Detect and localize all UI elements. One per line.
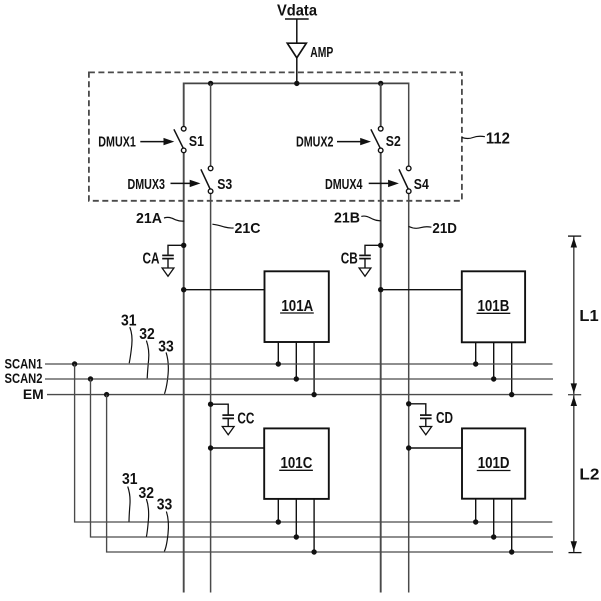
wire Vdata to AMP — [296, 19, 298, 43]
pin 101C leg3 — [313, 499, 315, 552]
node junction 101A leg3 — [311, 392, 316, 397]
svg-text:DMUX3: DMUX3 — [128, 176, 166, 193]
label 33 top with leader — [158, 339, 174, 394]
svg-text:32: 32 — [139, 326, 155, 343]
pin 101C leg2 — [295, 499, 297, 537]
pin 101A leg3 — [313, 342, 315, 395]
capacitor CB — [341, 243, 384, 277]
pixel block 101B — [462, 271, 525, 342]
node junction 21C feed — [208, 445, 213, 450]
svg-text:L2: L2 — [579, 467, 599, 484]
svg-text:CC: CC — [237, 410, 254, 427]
label DMUX3 with arrow — [128, 176, 201, 193]
dimension line L1/L2 — [568, 236, 582, 552]
node junction AMP-bus — [294, 81, 299, 86]
wire feed to 101B — [381, 289, 462, 291]
svg-text:CA: CA — [143, 251, 160, 268]
pin 101A leg1 — [277, 342, 279, 364]
node junction 21B feed — [378, 287, 383, 292]
wire AMP to bus — [296, 58, 298, 84]
wire hook SCAN1 down — [75, 364, 553, 522]
label DMUX1 with arrow — [98, 133, 174, 150]
svg-text:CD: CD — [436, 410, 453, 427]
svg-text:S4: S4 — [414, 176, 430, 193]
svg-text:101D: 101D — [478, 455, 510, 472]
wire SCAN2 — [45, 378, 553, 380]
wire 21B lower (data line 21B) — [380, 153, 382, 593]
wire feed to 101D — [409, 447, 462, 449]
svg-text:33: 33 — [157, 497, 173, 514]
label 21D with leader — [409, 220, 457, 237]
node junction 101A leg1 — [276, 361, 281, 366]
pixel block 101D — [462, 428, 525, 498]
demux block 112 dashed box — [89, 72, 462, 200]
wire 21A upper — [183, 83, 185, 127]
svg-text:101B: 101B — [478, 298, 510, 315]
pixel block 101C — [264, 428, 329, 499]
node junction 21B-bus — [378, 81, 383, 86]
label 31 top with leader — [121, 312, 137, 363]
wire 21A lower (data line 21A) — [183, 153, 185, 593]
svg-text:S3: S3 — [217, 176, 232, 193]
pixel block 101A — [265, 271, 329, 342]
node junction 101A leg2 — [294, 376, 299, 381]
wire hook SCAN2 down — [91, 379, 553, 537]
pin 101B leg2 — [493, 342, 495, 379]
svg-text:SCAN2: SCAN2 — [5, 370, 43, 386]
svg-text:DMUX1: DMUX1 — [98, 133, 136, 150]
node junction 101D leg1 — [473, 519, 478, 524]
pin 101C leg1 — [277, 499, 279, 522]
label DMUX2 with arrow — [296, 133, 371, 150]
svg-text:S1: S1 — [189, 133, 204, 150]
pin 101D leg1 — [475, 499, 477, 522]
node junction 101B leg2 — [491, 376, 496, 381]
node junction 101C leg3 — [311, 549, 316, 554]
wire 21C upper — [210, 83, 212, 166]
svg-text:S2: S2 — [386, 133, 401, 150]
node junction 101D leg2 — [491, 534, 496, 539]
switch S2 — [371, 126, 401, 152]
node junction SCAN2 hook — [88, 376, 93, 381]
node junction 21A feed — [181, 287, 186, 292]
op-amp AMP — [287, 43, 333, 61]
wire hook EM down — [107, 395, 553, 552]
label 31 bottom with leader — [122, 471, 138, 522]
node junction 101C leg2 — [294, 534, 299, 539]
node junction EM hook — [104, 392, 109, 397]
svg-text:DMUX4: DMUX4 — [325, 176, 363, 193]
svg-text:EM: EM — [23, 386, 44, 402]
node junction 101D leg3 — [509, 549, 514, 554]
wire bus — [184, 82, 409, 84]
label 21B with leader — [334, 210, 381, 227]
node Vdata — [277, 3, 317, 20]
label 33 bottom with leader — [157, 497, 173, 552]
pin 101D leg2 — [493, 499, 495, 537]
wire 21C lower (data line 21C) — [210, 194, 212, 593]
svg-text:21D: 21D — [432, 220, 457, 237]
svg-text:CB: CB — [341, 251, 358, 268]
label 32 top with leader — [139, 326, 155, 379]
node junction 21C-bus — [208, 81, 213, 86]
label DMUX4 with arrow — [325, 176, 399, 193]
capacitor CC — [208, 402, 255, 435]
svg-text:31: 31 — [121, 312, 137, 329]
wire EM — [47, 394, 553, 396]
node junction 101B leg1 — [473, 361, 478, 366]
node junction 21D feed — [406, 445, 411, 450]
svg-text:SCAN1: SCAN1 — [5, 355, 43, 371]
svg-text:Vdata: Vdata — [277, 3, 317, 20]
label 21C with leader — [212, 220, 260, 237]
capacitor CD — [406, 401, 453, 435]
label 32 bottom with leader — [139, 485, 155, 537]
wire feed to 101A — [184, 289, 265, 291]
pin 101B leg1 — [475, 342, 477, 364]
label 112 leader — [462, 136, 485, 138]
wire 21D lower (data line 21D) — [408, 194, 410, 593]
svg-text:AMP: AMP — [310, 44, 333, 61]
wire 21D upper — [408, 83, 410, 167]
svg-text:21C: 21C — [235, 220, 261, 237]
svg-text:DMUX2: DMUX2 — [296, 133, 334, 150]
pin 101A leg2 — [295, 342, 297, 379]
svg-text:21A: 21A — [136, 210, 162, 227]
svg-text:21B: 21B — [334, 210, 360, 227]
pin 101D leg3 — [511, 499, 513, 552]
svg-text:L1: L1 — [579, 308, 598, 325]
node junction 101C leg1 — [276, 519, 281, 524]
svg-text:112: 112 — [486, 131, 510, 148]
capacitor CA — [143, 243, 187, 277]
switch S3 — [201, 166, 232, 193]
label 21A with leader — [136, 210, 184, 227]
wire 21B upper — [380, 83, 382, 126]
wire feed to 101C — [211, 447, 265, 449]
switch S1 — [174, 126, 204, 152]
svg-text:31: 31 — [122, 471, 138, 488]
switch S4 — [399, 166, 429, 193]
wire SCAN1 — [45, 363, 553, 365]
pin 101B leg3 — [511, 342, 513, 395]
node junction 101B leg3 — [509, 392, 514, 397]
node junction SCAN1 hook — [72, 361, 77, 366]
